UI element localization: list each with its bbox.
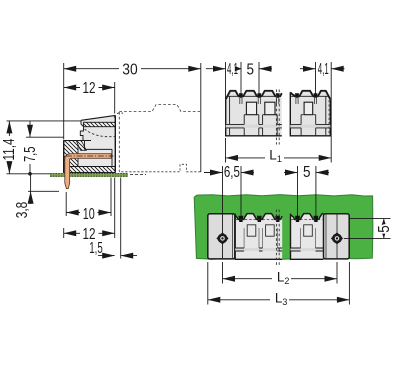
ext line left body edge (x=64) <box>63 63 65 140</box>
dimension 5 (bottom view pitch) <box>284 172 298 174</box>
dimension 12 top <box>64 87 115 89</box>
step zigzag <box>80 127 83 141</box>
inner ledge verticals <box>229 96 231 135</box>
latch window right group <box>304 102 313 115</box>
right end block <box>324 214 350 259</box>
svg-text:10: 10 <box>83 206 95 223</box>
hatched top latch band <box>84 122 116 126</box>
svg-text:5: 5 <box>303 164 311 181</box>
ext line x=114.7 for dim 12 top <box>114 82 116 114</box>
ext line y=137.2 for 7,5 <box>26 136 64 138</box>
latch rect cell1 <box>247 225 256 236</box>
pins section right group <box>291 214 324 260</box>
dimension 12 bottom <box>64 232 115 234</box>
connector body side view: grey moulding fills <box>84 127 116 141</box>
groove darker bands <box>226 124 282 128</box>
hatched bottom floor <box>64 167 115 173</box>
solder pin (orange, bent 90deg) <box>65 154 111 189</box>
latch window cell1 <box>246 102 256 115</box>
hatched left wall <box>64 141 78 167</box>
right group top outline <box>290 91 330 100</box>
dimension 6,5 <box>204 172 223 174</box>
left group top outline <box>226 91 282 100</box>
dimension L1 <box>225 138 227 163</box>
dashed dip floor <box>236 218 282 220</box>
latch window cell2 (cut by break) <box>265 102 275 115</box>
svg-text:12: 12 <box>83 80 96 97</box>
connector top-view: left end block <box>208 214 235 259</box>
svg-text:30: 30 <box>122 62 138 79</box>
ext line top left horizontal (y=120.9) <box>7 120 82 122</box>
dimension L3 <box>207 262 209 305</box>
dimension 3,8 (vertical) <box>30 174 32 204</box>
dimension 5 (right vertical) <box>349 218 390 220</box>
grooves <box>235 248 282 251</box>
dimension L2 <box>222 262 224 284</box>
latch rect cell2 <box>266 225 275 236</box>
right pin hole circle <box>331 232 343 244</box>
groove lines <box>226 124 282 128</box>
dashed mating connector outline <box>118 112 120 172</box>
dash-dot PCB continuation <box>130 173 146 175</box>
svg-text:5: 5 <box>376 225 393 233</box>
front view dims: 4,1 / 5 / 4,1 <box>206 68 226 70</box>
svg-text:6,5: 6,5 <box>224 164 240 181</box>
cavity lines <box>84 141 86 150</box>
svg-text:11,4: 11,4 <box>1 138 18 160</box>
svg-text:4,1: 4,1 <box>318 61 329 78</box>
green PCB strip <box>50 173 128 177</box>
svg-text:1,5: 1,5 <box>89 240 103 257</box>
dashed inner edge right group <box>328 100 330 135</box>
hatched diagonal step <box>76 141 86 151</box>
dimension 1,5 <box>98 255 137 257</box>
svg-text:7,5: 7,5 <box>22 147 39 163</box>
break dashes bottom view <box>275 210 277 266</box>
front view right group body <box>290 91 330 136</box>
body outline lines <box>81 115 115 120</box>
pin centerline dash-dot <box>66 155 114 157</box>
svg-text:5: 5 <box>247 61 255 78</box>
groove darker band <box>235 248 282 251</box>
svg-text:3,8: 3,8 <box>14 202 31 219</box>
ext line x=66.2 for dim 10 <box>65 192 67 216</box>
group side/bottom outlines <box>226 99 282 136</box>
ext line y=173.8 (pcb top) <box>7 173 51 175</box>
pins (black) front view <box>239 93 243 98</box>
dimension 10 <box>66 212 111 214</box>
dashed latch lever curve <box>85 129 116 137</box>
green PCB band <box>194 195 373 260</box>
front view left group body <box>226 91 282 136</box>
ext line mating right edge (x=200.8) <box>200 63 202 172</box>
dimension 30 <box>64 68 201 70</box>
pins (black) bottom view <box>239 216 244 222</box>
dimension 7,5 (vertical) <box>29 121 31 174</box>
ext lines x=114.7/120.7 below <box>114 178 116 239</box>
left pin hole circle <box>216 232 228 244</box>
pins section left group <box>235 214 282 260</box>
dip floor lines <box>227 95 282 97</box>
dimension 11,4 (vertical) <box>8 121 10 174</box>
break dashed lines front view <box>275 90 277 145</box>
